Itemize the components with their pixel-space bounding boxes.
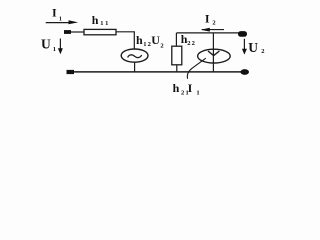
svg-text:2: 2 bbox=[261, 48, 264, 55]
svg-text:2: 2 bbox=[212, 19, 215, 26]
svg-text:h: h bbox=[92, 13, 99, 27]
svg-text:11: 11 bbox=[100, 20, 110, 27]
svg-text:h: h bbox=[173, 81, 180, 95]
svg-text:U: U bbox=[151, 33, 160, 47]
svg-text:2: 2 bbox=[160, 43, 163, 50]
svg-text:U: U bbox=[248, 40, 258, 55]
svg-text:1: 1 bbox=[59, 16, 62, 23]
svg-text:1: 1 bbox=[53, 46, 56, 53]
svg-text:1: 1 bbox=[196, 89, 199, 95]
svg-text:h: h bbox=[136, 33, 143, 47]
svg-text:22: 22 bbox=[187, 40, 196, 47]
svg-text:I: I bbox=[52, 6, 57, 20]
svg-text:I: I bbox=[188, 81, 193, 95]
svg-text:U: U bbox=[41, 37, 51, 52]
svg-text:I: I bbox=[205, 12, 210, 26]
